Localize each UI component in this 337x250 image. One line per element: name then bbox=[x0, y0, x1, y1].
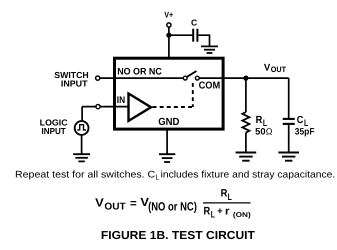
svg-text:INPUT: INPUT bbox=[61, 78, 88, 88]
terminal switch input bbox=[96, 76, 100, 80]
svg-text:L: L bbox=[211, 209, 215, 220]
wire V+ down to box bbox=[168, 27, 170, 57]
svg-text:OUT: OUT bbox=[104, 201, 125, 212]
wire CL to ground bbox=[288, 125, 290, 152]
ground (logic input) bbox=[73, 154, 90, 161]
wire junction to capacitor C bbox=[169, 34, 192, 36]
svg-text:r: r bbox=[225, 206, 230, 218]
switch pole contact bbox=[183, 76, 187, 80]
SWITCH INPUT label bbox=[54, 70, 88, 88]
svg-text:L: L bbox=[155, 173, 159, 182]
DUT box bbox=[115, 58, 224, 129]
fraction bar bbox=[203, 202, 251, 204]
wire RL to ground bbox=[245, 133, 247, 152]
wire logic input to IN bbox=[82, 106, 128, 108]
svg-text:V+: V+ bbox=[164, 10, 173, 20]
wire box GND to ground bbox=[166, 131, 168, 154]
switch blade bbox=[187, 71, 197, 77]
terminal V+ bbox=[167, 23, 171, 27]
wire COM to output bbox=[199, 77, 288, 79]
svg-text:C: C bbox=[191, 18, 197, 28]
svg-text:COM: COM bbox=[199, 80, 221, 91]
LOGIC INPUT label bbox=[40, 118, 69, 136]
wire switch input to switch pole bbox=[100, 77, 183, 79]
svg-text:L: L bbox=[228, 191, 232, 202]
svg-text:IN: IN bbox=[117, 95, 125, 106]
junction dot bbox=[166, 33, 171, 38]
resistor RL bbox=[242, 112, 249, 133]
ground (cap C) bbox=[201, 46, 218, 53]
capacitor C bbox=[193, 29, 197, 42]
value 50 ohm bbox=[255, 126, 273, 136]
svg-text:(ON): (ON) bbox=[233, 211, 251, 219]
svg-text:R: R bbox=[204, 206, 211, 218]
formula VOUT bbox=[95, 187, 251, 219]
svg-text:GND: GND bbox=[158, 117, 180, 128]
svg-text:INPUT: INPUT bbox=[42, 126, 67, 136]
svg-text:R: R bbox=[256, 115, 263, 126]
ground (CL) bbox=[278, 153, 299, 161]
svg-text:Ω: Ω bbox=[266, 127, 273, 137]
svg-text:Repeat test for all switches.: Repeat test for all switches. C bbox=[15, 170, 155, 181]
capacitor CL bbox=[283, 119, 295, 124]
pulse symbol bbox=[77, 125, 86, 130]
ground (box GND) bbox=[159, 154, 175, 162]
label CL bbox=[297, 115, 309, 128]
buffer amplifier triangle bbox=[129, 94, 152, 121]
junction dot RL branch bbox=[243, 76, 248, 81]
label RL bbox=[256, 115, 268, 128]
wire capacitor to ground bbox=[198, 35, 209, 45]
dashed control line vertical bbox=[192, 83, 194, 107]
terminal logic IN bbox=[96, 105, 100, 109]
note text bbox=[15, 170, 335, 182]
ground (RL) bbox=[236, 153, 257, 161]
wire IN corner down to pulse source bbox=[81, 107, 83, 122]
svg-text:includes fixture and stray cap: includes fixture and stray capacitance. bbox=[161, 170, 336, 181]
svg-text:50: 50 bbox=[255, 126, 265, 136]
dashed control line bbox=[153, 106, 193, 108]
svg-text:OUT: OUT bbox=[271, 65, 286, 74]
wire VOUT corner down to CL bbox=[288, 78, 290, 118]
svg-text:(NO or NC): (NO or NC) bbox=[148, 200, 197, 214]
svg-text:35pF: 35pF bbox=[295, 126, 315, 136]
svg-text:C: C bbox=[297, 115, 304, 126]
wire down to RL bbox=[245, 78, 247, 112]
svg-text:+: + bbox=[217, 206, 223, 217]
svg-text:=: = bbox=[130, 198, 137, 210]
pulse generator source bbox=[75, 121, 89, 135]
svg-text:R: R bbox=[221, 187, 228, 199]
node VOUT label bbox=[264, 62, 286, 74]
switch throw contact bbox=[195, 76, 199, 80]
svg-text:NO OR NC: NO OR NC bbox=[117, 67, 162, 78]
wire pulse source to ground bbox=[81, 135, 83, 154]
svg-text:V: V bbox=[95, 196, 104, 210]
svg-text:FIGURE 1B. TEST CIRCUIT: FIGURE 1B. TEST CIRCUIT bbox=[101, 229, 255, 242]
